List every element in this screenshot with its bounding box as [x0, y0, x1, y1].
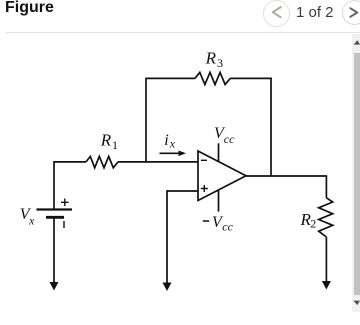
resistor R1 zigzag: [86, 156, 118, 167]
wire input rail left of R1: [54, 161, 86, 163]
wire source vertical (Vx top lead): [53, 161, 55, 209]
wire top-right horizontal (feedback top rail, right of R3): [230, 77, 272, 79]
label R1: [100, 131, 118, 153]
wire ground lead under Vx: [53, 217, 55, 282]
minus terminal tick: [63, 221, 65, 228]
svg-text:R: R: [205, 49, 217, 68]
wire load ground lead: [325, 237, 327, 282]
wire top-left horizontal (feedback top rail, left of R3): [146, 77, 195, 79]
current arrow ix: [160, 151, 187, 157]
wire load vertical upper: [325, 176, 327, 198]
pager label "1 of 2": [296, 4, 334, 21]
svg-text:cc: cc: [224, 132, 235, 146]
op-amp U1 triangle: [198, 151, 246, 201]
svg-text:3: 3: [217, 56, 223, 70]
wire middle ground vertical: [166, 190, 168, 283]
svg-text:x: x: [169, 137, 176, 151]
op-amp minus sign: [201, 159, 207, 161]
svg-text:R: R: [100, 131, 112, 150]
op-amp plus sign: [201, 185, 208, 192]
battery Vx bottom plate: [46, 216, 64, 219]
wire -Vcc supply stub: [218, 190, 220, 212]
ground arrow left: [50, 282, 59, 291]
label R2: [300, 210, 317, 230]
battery Vx top plate: [37, 208, 73, 210]
svg-text:i: i: [164, 132, 168, 149]
pager next button: [342, 0, 360, 25]
label Vcc: [214, 125, 235, 146]
label ix: [164, 132, 176, 151]
svg-text:1: 1: [112, 138, 118, 152]
pager prev button (disabled): [263, 0, 290, 27]
ground arrow middle: [163, 283, 172, 292]
label R3: [205, 49, 223, 71]
scrollbar track: [352, 34, 360, 312]
resistor R3 zigzag: [195, 72, 230, 84]
wire Vcc supply stub: [218, 143, 220, 162]
wire left feedback vertical: [145, 78, 147, 163]
scrollbar down arrow: [352, 295, 360, 312]
header divider rule: [6, 32, 360, 33]
scrollbar thumb: [354, 53, 360, 295]
resistor R2 zigzag (vertical): [319, 198, 333, 237]
plus terminal mark: [61, 199, 69, 207]
svg-text:cc: cc: [222, 220, 233, 234]
label -Vcc: [212, 214, 234, 234]
header title "Figure": [5, 0, 54, 17]
wire op-amp output rail: [246, 175, 327, 177]
minus sign of -Vcc: [203, 220, 209, 222]
wire input rail right of R1 to op-amp inverting input: [118, 161, 198, 163]
svg-text:2: 2: [310, 216, 316, 230]
ground arrow right: [322, 281, 331, 290]
wire right feedback vertical: [270, 78, 272, 176]
scrollbar up arrow: [352, 34, 360, 51]
label Vx: [20, 206, 35, 228]
wire op-amp noninverting input: [167, 190, 198, 192]
svg-text:x: x: [28, 214, 35, 228]
